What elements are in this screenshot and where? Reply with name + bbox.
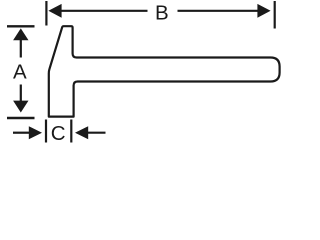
- dimension C: right arrowhead: [75, 126, 88, 139]
- dimension B: left line segment: [60, 10, 148, 12]
- dimension B: right extension line: [274, 1, 276, 29]
- dimension C: right extension line: [70, 120, 72, 143]
- hammer outline: [49, 26, 280, 116]
- dimension A: bottom tick: [7, 117, 35, 119]
- dimension A: upper stem: [20, 39, 22, 58]
- dimension B: left arrowhead: [48, 4, 61, 18]
- dimension A: down arrowhead: [13, 101, 28, 113]
- dimension C: right arrow line: [88, 132, 106, 134]
- dimension C: left extension line: [45, 120, 47, 143]
- dimension A: lower stem: [20, 85, 22, 103]
- dimension A: top tick: [7, 25, 35, 27]
- dimension B: right line segment: [178, 10, 260, 12]
- dimension B: right arrowhead: [257, 4, 270, 18]
- dimension B: left extension line: [45, 1, 47, 26]
- svg-text:C: C: [51, 122, 66, 145]
- svg-text:A: A: [13, 60, 27, 83]
- dimension C: left arrow line: [13, 132, 29, 134]
- dimension A: up arrowhead: [13, 28, 28, 40]
- dimension C: left arrowhead: [29, 126, 42, 139]
- svg-text:B: B: [155, 1, 169, 24]
